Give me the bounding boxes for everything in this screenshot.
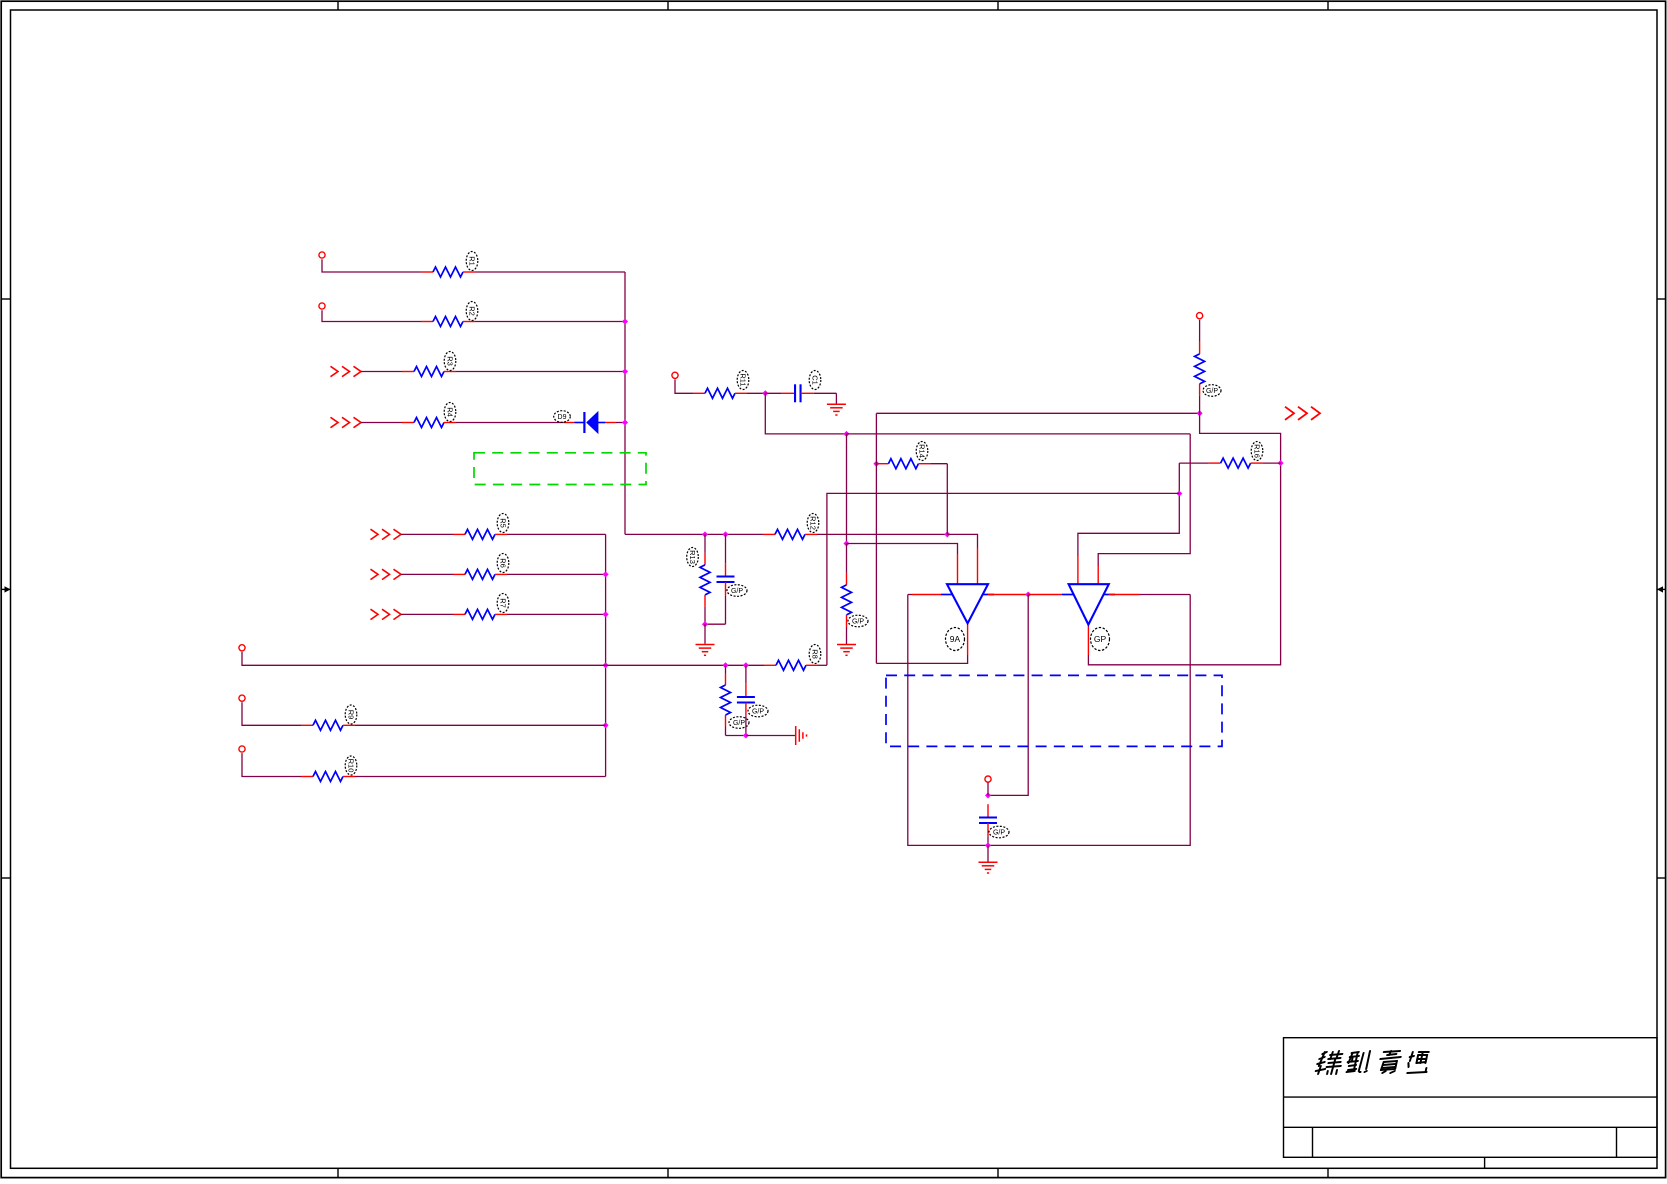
svg-text:G/P: G/P <box>752 709 764 716</box>
svg-text:R16: R16 <box>1252 444 1261 458</box>
svg-text:R13: R13 <box>688 550 697 564</box>
svg-text:R10: R10 <box>346 759 355 773</box>
svg-text:R5: R5 <box>498 518 507 528</box>
svg-text:G/P: G/P <box>852 619 864 626</box>
svg-text:G/P: G/P <box>731 588 743 595</box>
svg-text:R1: R1 <box>467 256 476 266</box>
svg-text:R8: R8 <box>810 649 819 659</box>
svg-text:R4: R4 <box>445 407 454 417</box>
svg-text:R7: R7 <box>498 598 507 608</box>
svg-text:GP: GP <box>1094 634 1107 644</box>
svg-text:R12: R12 <box>808 516 817 530</box>
svg-text:R3: R3 <box>445 356 454 366</box>
svg-text:D9: D9 <box>558 414 567 421</box>
svg-text:R2: R2 <box>467 306 476 316</box>
svg-text:C1: C1 <box>810 375 819 385</box>
svg-text:G/P: G/P <box>993 830 1005 837</box>
svg-text:R9: R9 <box>346 710 355 720</box>
svg-text:R11: R11 <box>738 373 747 386</box>
svg-text:R6: R6 <box>498 558 507 568</box>
svg-text:9A: 9A <box>950 634 961 644</box>
svg-text:G/P: G/P <box>1206 388 1218 395</box>
svg-text:R14: R14 <box>917 444 926 458</box>
svg-text:G/P: G/P <box>733 720 745 727</box>
